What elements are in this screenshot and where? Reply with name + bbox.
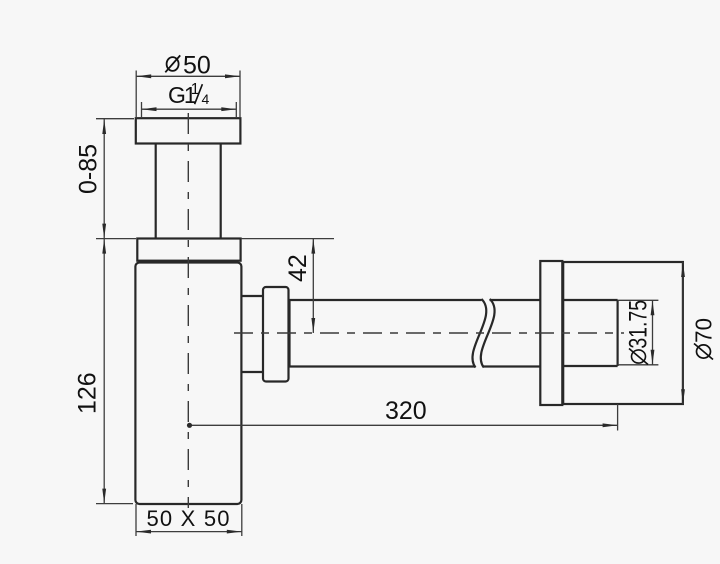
50x50 extension left [135,504,137,536]
tailpiece neck left edge [155,144,157,239]
trap body [135,263,241,505]
body collar [137,239,240,261]
dimension lines [96,71,683,537]
pipe end extension line down [617,404,619,431]
collar top extension line right [241,238,334,240]
dia50 right arrow [225,74,240,78]
svg-text:31.75: 31.75 [624,300,652,349]
42 bottom arrow [311,318,315,333]
dia50 extension right [239,71,241,118]
collar top extension line left [96,238,136,240]
dia31.75 extension top [618,299,659,301]
label dia31.75 rotated [624,300,652,365]
svg-text:50: 50 [183,52,211,80]
svg-text:50 X 50: 50 X 50 [147,506,231,531]
pipe bottom line (right of break) [484,365,541,367]
pipe top line inside wall flange [563,299,617,301]
svg-text:42: 42 [284,254,312,282]
0-85 dimension line [103,119,105,239]
horizontal pipe centerline [234,332,624,334]
G1 1/4 extension right [235,102,237,117]
pipe top line (right of break) [490,299,541,301]
label dia50 symbol [165,55,180,72]
pipe break curve 1 [472,299,486,368]
G1 1/4 left arrow [142,107,157,111]
G1 1/4 dimension line [142,108,237,110]
126 bottom arrow [102,489,106,504]
dia50 dimension line [136,75,240,77]
G1 1/4 right arrow [221,107,236,111]
wall escutcheon ring [540,261,562,405]
126 dimension line [103,239,105,504]
dia31.75 dimension line [652,300,654,365]
320 start dot [187,423,192,428]
320 right arrow [603,423,618,427]
pipe bottom line (left of break) [290,365,476,367]
centerlines [188,113,624,508]
dia70 top arrow [681,262,685,277]
pipe top line (left of break) [290,299,482,301]
0-85 bottom arrow [102,224,106,239]
outlet nut [263,287,289,382]
dia70 bottom arrow [681,389,685,404]
pipe bottom line inside wall flange [563,365,617,367]
dia31.75 top arrow [651,300,655,315]
outlet stub top [241,295,263,297]
svg-text:4: 4 [202,91,210,107]
arrowheads [102,74,685,533]
outlet stub bottom [241,371,263,373]
G1 1/4 extension left [141,102,143,117]
320 dimension line [190,424,618,426]
svg-text:126: 126 [74,372,102,414]
0-85 top arrow [102,119,106,134]
tailpiece flange [136,118,241,143]
dia70 dimension line [682,262,684,404]
body bottom extension line [96,503,133,505]
wall flange block [563,262,683,404]
flange top extension line [96,118,134,120]
50x50 right arrow [227,530,242,534]
50x50 extension right [241,504,243,536]
tailpiece neck right edge [220,144,222,239]
svg-text:320: 320 [385,397,427,425]
vertical body centerline [187,113,189,508]
pipe left end [288,300,290,367]
dia50 extension left [135,71,137,118]
svg-text:70: 70 [690,318,717,343]
42 top arrow [311,239,315,254]
dia31.75 bottom arrow [651,350,655,365]
50x50 dimension line [136,531,242,533]
pipe end edge [616,300,618,366]
svg-text:0-85: 0-85 [75,144,103,194]
126 top arrow [102,239,106,254]
50x50 left arrow [136,530,151,534]
dia50 left arrow [136,74,151,78]
dia31.75 extension bottom [618,364,659,366]
label dia70 rotated [690,318,717,359]
pipe break curve 2 [481,299,495,368]
42 dimension line [312,239,314,333]
